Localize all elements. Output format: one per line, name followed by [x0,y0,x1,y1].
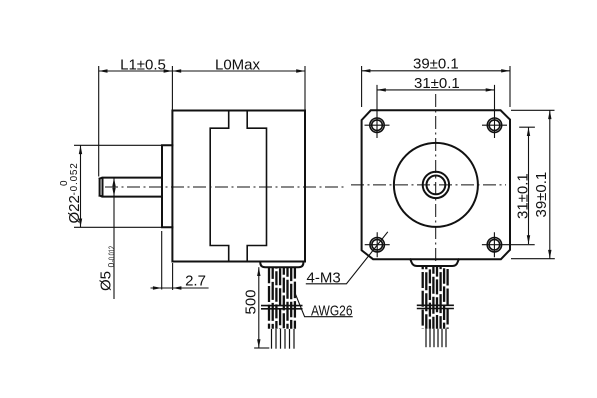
svg-text:39±0.1: 39±0.1 [533,172,550,218]
svg-text:39±0.1: 39±0.1 [413,55,459,72]
svg-text:Ø22: Ø22 [66,195,83,223]
svg-text:31±0.1: 31±0.1 [514,173,531,219]
svg-text:-0.052: -0.052 [69,162,80,195]
svg-text:31±0.1: 31±0.1 [414,75,460,92]
svg-text:Ø5: Ø5 [98,271,115,291]
svg-text:2.7: 2.7 [185,273,206,290]
svg-text:-0.012: -0.012 [106,246,116,262]
svg-text:L1±0.5: L1±0.5 [120,56,166,73]
svg-text:L0Max: L0Max [215,56,261,73]
svg-text:500: 500 [243,289,260,314]
svg-text:0: 0 [106,263,116,268]
